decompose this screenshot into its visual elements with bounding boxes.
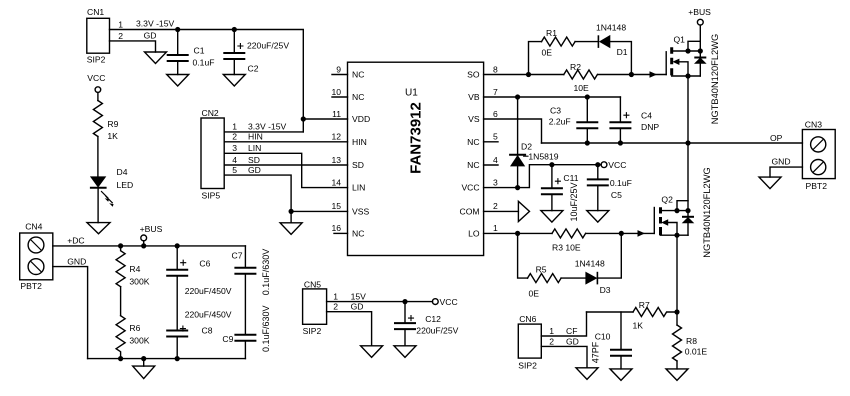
wire bottom rail xyxy=(88,358,246,360)
capacitor C10 47PF xyxy=(591,312,632,369)
svg-text:D1: D1 xyxy=(617,47,628,57)
capacitor C7 0.1uF/630V xyxy=(232,246,272,295)
transistor Q1 IGBT xyxy=(666,34,720,124)
diode Q2 freewheel xyxy=(682,211,695,236)
svg-text:NGTB40N120FL2WG: NGTB40N120FL2WG xyxy=(702,167,712,257)
ground (C5) xyxy=(587,211,609,223)
wire VSS pin15 xyxy=(291,210,347,212)
svg-text:220uF/450V: 220uF/450V xyxy=(185,286,232,296)
node junction +BUS stub xyxy=(141,243,146,248)
wire ground stub xyxy=(143,359,145,367)
node junction VS / Q1 emitter xyxy=(685,140,690,145)
power flag VCC (CN5) xyxy=(432,297,457,307)
node junction C2 top xyxy=(232,27,237,32)
power flag VCC (top-left) xyxy=(87,73,105,101)
capacitor C8 220uF/450V xyxy=(166,310,232,359)
svg-text:C5: C5 xyxy=(611,190,622,200)
node junction C8 bottom xyxy=(175,356,180,361)
diode D1 1N4148 xyxy=(596,23,628,58)
gate drive arrow (Q1) xyxy=(650,71,658,78)
U1 pin 4 NC stub xyxy=(484,164,498,166)
svg-text:1N5819: 1N5819 xyxy=(528,152,558,162)
svg-text:GD: GD xyxy=(144,30,157,40)
U1 left pin numbers xyxy=(331,64,341,233)
svg-text:C9: C9 xyxy=(222,334,233,344)
svg-text:11: 11 xyxy=(332,109,341,119)
node junction R4 top xyxy=(118,243,123,248)
svg-text:GD: GD xyxy=(351,302,364,312)
svg-text:R3 10E: R3 10E xyxy=(552,243,581,253)
node junction D2 top xyxy=(515,94,520,99)
node junction LO left xyxy=(515,231,520,236)
capacitor C3 2.2uF xyxy=(549,97,599,143)
svg-text:DNP: DNP xyxy=(641,122,659,132)
resistor R6 300K xyxy=(116,316,150,359)
U1 left pin names xyxy=(352,70,370,239)
svg-text:4: 4 xyxy=(493,155,498,165)
svg-text:LO: LO xyxy=(468,228,480,238)
svg-text:220uF/25V: 220uF/25V xyxy=(416,326,458,336)
svg-text:OP: OP xyxy=(770,133,783,143)
resistor R8 0.01E xyxy=(673,325,708,361)
U1 pin 9 NC stub xyxy=(332,74,348,76)
svg-text:PBT2: PBT2 xyxy=(20,281,42,291)
svg-text:NC: NC xyxy=(352,70,364,80)
svg-text:LIN: LIN xyxy=(352,183,365,193)
wire C6 to C8 xyxy=(176,276,178,331)
wire GD to VSS pin15 xyxy=(224,175,291,211)
svg-text:CN2: CN2 xyxy=(202,108,219,118)
svg-text:SD: SD xyxy=(248,155,260,165)
COM open triangle (pin2) xyxy=(484,201,530,221)
svg-text:C6: C6 xyxy=(199,259,210,269)
svg-text:VS: VS xyxy=(468,114,480,124)
U1 pin 5 NC stub xyxy=(484,141,498,143)
svg-text:10uF/25V: 10uF/25V xyxy=(569,182,579,221)
ground (C2) xyxy=(223,75,245,87)
svg-text:HIN: HIN xyxy=(352,137,367,147)
svg-text:8: 8 xyxy=(493,64,498,74)
ground (bottom rail) xyxy=(133,366,155,379)
wire CN5 pin2 to ground xyxy=(327,312,372,346)
diode D3 1N4148 xyxy=(575,259,611,296)
svg-text:16: 16 xyxy=(331,223,341,233)
svg-text:GD: GD xyxy=(248,165,261,175)
svg-text:5: 5 xyxy=(493,132,498,142)
svg-text:0.1uF: 0.1uF xyxy=(610,178,632,188)
wire VDD pin11 xyxy=(303,118,347,120)
svg-text:220uF/25V: 220uF/25V xyxy=(247,41,289,51)
diode Q1 freewheel xyxy=(694,51,707,76)
node junction VDD xyxy=(301,116,306,121)
capacitor C2 220uF/25V xyxy=(223,30,289,75)
svg-text:15: 15 xyxy=(331,201,341,211)
svg-text:C2: C2 xyxy=(248,64,259,74)
ground (C1) xyxy=(167,75,189,87)
capacitor C9 0.1uF/630V xyxy=(222,305,270,358)
svg-text:R1: R1 xyxy=(546,28,557,38)
svg-text:R2: R2 xyxy=(570,62,581,72)
svg-text:7: 7 xyxy=(493,87,498,97)
resistor R2 10E xyxy=(564,62,598,93)
svg-text:R7: R7 xyxy=(639,300,650,310)
wire Q1 emitter to VS node xyxy=(687,76,689,143)
svg-text:NC: NC xyxy=(467,160,479,170)
svg-text:CN1: CN1 xyxy=(87,7,104,17)
node junction SO left xyxy=(526,72,531,77)
svg-text:NGTB40N120FL2WG: NGTB40N120FL2WG xyxy=(710,34,720,124)
svg-text:1: 1 xyxy=(118,19,123,29)
svg-text:9: 9 xyxy=(336,64,341,74)
power flag +BUS (left) xyxy=(140,224,163,246)
svg-text:Q2: Q2 xyxy=(661,195,673,205)
wire CN2 pin1 to VDD vertical xyxy=(224,131,303,133)
svg-text:NC: NC xyxy=(352,228,364,238)
svg-text:1: 1 xyxy=(493,223,498,233)
svg-text:12: 12 xyxy=(331,132,341,142)
svg-text:VSS: VSS xyxy=(352,206,369,216)
svg-text:C4: C4 xyxy=(641,111,652,121)
wire R9 to D4 xyxy=(97,137,99,177)
wire D4 to ground xyxy=(97,188,99,223)
U1 pin 16 NC stub xyxy=(334,232,348,234)
svg-text:U1: U1 xyxy=(405,88,418,99)
capacitor C6 220uF/450V xyxy=(166,246,232,296)
op-amp U1 FAN73912 body xyxy=(348,62,484,255)
resistor R5 0E xyxy=(528,265,562,299)
wire CN3 pin2 to ground xyxy=(770,167,802,177)
ground (CN5 GD) xyxy=(361,346,383,358)
svg-text:C7: C7 xyxy=(232,251,243,261)
svg-text:0E: 0E xyxy=(529,289,540,299)
svg-text:VDD: VDD xyxy=(352,114,370,124)
capacitor C11 10uF/25V xyxy=(541,165,579,222)
ground (C12) xyxy=(394,346,416,358)
svg-text:LIN: LIN xyxy=(248,143,261,153)
svg-text:15V: 15V xyxy=(351,291,367,301)
resistor R4 300K xyxy=(116,246,150,287)
resistor R1 0E xyxy=(542,28,576,58)
svg-text:C1: C1 xyxy=(194,46,205,56)
svg-text:3: 3 xyxy=(493,177,498,187)
capacitor C4 DNP xyxy=(609,97,659,143)
svg-text:0E: 0E xyxy=(542,48,553,58)
ground (CN3) xyxy=(759,177,781,189)
connector CN4 PBT2 xyxy=(20,222,53,292)
connector CN6 SIP2 xyxy=(518,314,554,371)
svg-text:2: 2 xyxy=(549,337,554,347)
wire CN5 pin1 to VCC flag xyxy=(327,301,433,303)
svg-text:R8: R8 xyxy=(686,336,697,346)
svg-text:CN3: CN3 xyxy=(805,120,822,130)
svg-text:VCC: VCC xyxy=(461,183,479,193)
node junction C12 top xyxy=(402,299,407,304)
svg-text:5: 5 xyxy=(232,165,237,175)
wire CN6 pin1 CF xyxy=(541,312,586,336)
svg-text:C8: C8 xyxy=(202,326,213,336)
wire SO pin8 to Q1 gate xyxy=(484,74,667,76)
node junction LO right xyxy=(619,231,624,236)
svg-text:CN6: CN6 xyxy=(519,314,536,324)
wire CF line to R7 xyxy=(587,311,634,313)
wire R1 branch verticals xyxy=(529,42,632,75)
wire +DC rail xyxy=(53,245,246,247)
node junction C11 top xyxy=(549,162,554,167)
power flag +BUS (Q1) xyxy=(688,7,711,51)
ground (CN1 GD) xyxy=(145,52,167,64)
svg-text:Q1: Q1 xyxy=(674,35,686,45)
ground (CN6 GD) xyxy=(576,368,598,380)
wire LIN to pin14 xyxy=(224,153,347,187)
svg-text:NC: NC xyxy=(352,92,364,102)
power flag VCC (OVCC) xyxy=(601,160,626,170)
node junction R7/R8 xyxy=(674,309,679,314)
svg-text:1: 1 xyxy=(549,326,554,336)
resistor R3 10E xyxy=(552,229,586,253)
wire CN6 pin2 to ground xyxy=(541,346,587,367)
svg-text:14: 14 xyxy=(331,177,341,187)
svg-text:3: 3 xyxy=(232,143,237,153)
U1 pin 10 NC stub xyxy=(332,96,348,98)
wire LO pin1 to Q2 gate xyxy=(484,232,655,234)
svg-text:COM: COM xyxy=(460,206,480,216)
svg-text:GND: GND xyxy=(772,157,791,167)
svg-text:2: 2 xyxy=(493,201,498,211)
node junction C4 bottom xyxy=(618,140,623,145)
node junction D2 bottom xyxy=(515,185,520,190)
node junction VSS xyxy=(289,209,294,214)
wire VS pin6 jog xyxy=(484,119,542,143)
svg-text:SIP2: SIP2 xyxy=(518,361,537,371)
resistor R9 1K xyxy=(93,101,118,142)
node junction C3 top xyxy=(585,94,590,99)
connector CN1 SIP2 xyxy=(87,7,123,65)
U1 right pin names xyxy=(460,70,480,239)
svg-text:1: 1 xyxy=(333,291,338,301)
wire VS node to CN3 OP xyxy=(542,142,803,144)
wire CN1 pin1 rail to corner xyxy=(110,30,304,132)
svg-text:FAN73912: FAN73912 xyxy=(408,102,425,174)
svg-text:2.2uF: 2.2uF xyxy=(549,117,571,127)
svg-text:SIP5: SIP5 xyxy=(202,191,221,201)
wire C7 to C9 xyxy=(244,274,246,335)
svg-text:1N4148: 1N4148 xyxy=(575,259,605,269)
svg-text:D2: D2 xyxy=(521,142,532,152)
node junction SO right xyxy=(629,72,634,77)
wire VCC pin3 xyxy=(484,165,602,188)
svg-text:4: 4 xyxy=(232,155,237,165)
svg-text:1N4148: 1N4148 xyxy=(596,23,626,33)
gate drive arrow (Q2) xyxy=(638,230,646,237)
svg-text:CN5: CN5 xyxy=(304,280,321,290)
svg-text:GND: GND xyxy=(67,257,86,267)
svg-text:R6: R6 xyxy=(129,323,140,333)
node junction C6 top xyxy=(175,243,180,248)
capacitor C12 220uF/25V xyxy=(394,302,459,346)
wire R5 branch xyxy=(518,233,622,278)
svg-text:C10: C10 xyxy=(595,332,611,342)
svg-text:C11: C11 xyxy=(563,173,578,183)
svg-text:C3: C3 xyxy=(550,106,561,116)
svg-text:220uF/450V: 220uF/450V xyxy=(185,310,232,320)
svg-text:LED: LED xyxy=(117,180,134,190)
svg-text:R5: R5 xyxy=(536,265,547,275)
svg-text:2: 2 xyxy=(118,31,123,41)
U1 right pin numbers xyxy=(493,64,498,233)
svg-text:1: 1 xyxy=(232,122,237,132)
svg-text:300K: 300K xyxy=(129,277,149,287)
svg-text:R9: R9 xyxy=(107,119,118,129)
svg-text:+BUS: +BUS xyxy=(140,224,163,234)
diode D2 1N5819 xyxy=(509,97,559,188)
svg-text:SO: SO xyxy=(467,70,480,80)
connector CN3 PBT2 xyxy=(802,120,835,192)
node junction C5 top xyxy=(595,162,600,167)
wire VSS ground stub xyxy=(290,211,292,222)
capacitor C5 0.1uF xyxy=(587,165,632,211)
svg-text:D3: D3 xyxy=(600,285,611,295)
svg-text:+BUS: +BUS xyxy=(688,7,711,17)
svg-text:C12: C12 xyxy=(425,314,441,324)
wire CN4 GND down to bottom rail xyxy=(53,267,88,359)
svg-text:300K: 300K xyxy=(129,336,149,346)
svg-text:13: 13 xyxy=(331,155,341,165)
svg-text:SIP2: SIP2 xyxy=(303,326,322,336)
svg-text:0.1uF/630V: 0.1uF/630V xyxy=(261,305,271,352)
svg-text:CN4: CN4 xyxy=(25,222,42,232)
svg-text:3.3V -15V: 3.3V -15V xyxy=(136,19,174,29)
wire SD to pin13 xyxy=(224,164,347,166)
wire VS node to Q2 collector xyxy=(687,143,689,211)
svg-text:+DC: +DC xyxy=(67,236,84,246)
ground (C11) xyxy=(541,211,563,223)
svg-text:2: 2 xyxy=(232,132,237,142)
wire Q2 emitter down xyxy=(676,235,678,325)
resistor R7 1K xyxy=(633,300,678,331)
svg-text:CF: CF xyxy=(566,326,577,336)
transistor Q2 IGBT xyxy=(654,167,712,257)
svg-text:HIN: HIN xyxy=(248,132,263,142)
connector CN5 SIP2 xyxy=(303,280,339,337)
svg-text:0.1uF/630V: 0.1uF/630V xyxy=(261,249,271,296)
svg-text:VCC: VCC xyxy=(608,160,626,170)
wire VB pin7 xyxy=(484,96,621,98)
svg-text:NC: NC xyxy=(467,137,479,147)
svg-text:VCC: VCC xyxy=(440,297,458,307)
LED D4 xyxy=(90,167,133,207)
svg-text:47PF: 47PF xyxy=(591,341,601,363)
node junction C3 bottom xyxy=(585,140,590,145)
svg-text:SD: SD xyxy=(352,160,364,170)
node junction C1 top xyxy=(175,27,180,32)
svg-text:1K: 1K xyxy=(633,321,644,331)
ground (R8) xyxy=(666,369,688,381)
svg-text:SIP2: SIP2 xyxy=(87,55,106,65)
wire R4 to R6 xyxy=(120,287,122,316)
wire HIN to pin12 xyxy=(224,141,347,143)
ground (VSS) xyxy=(280,223,302,235)
svg-text:1K: 1K xyxy=(107,131,118,141)
svg-text:3.3V -15V: 3.3V -15V xyxy=(248,122,286,132)
ground (D4) xyxy=(87,223,110,234)
svg-text:R4: R4 xyxy=(129,264,140,274)
svg-text:GD: GD xyxy=(566,337,579,347)
capacitor C1 xyxy=(167,30,215,75)
svg-text:PBT2: PBT2 xyxy=(806,181,828,191)
svg-text:10E: 10E xyxy=(574,83,590,93)
svg-text:6: 6 xyxy=(493,109,498,119)
svg-text:VCC: VCC xyxy=(87,73,105,83)
svg-text:0.1uF: 0.1uF xyxy=(193,58,215,68)
ground (C10) xyxy=(610,369,632,381)
svg-text:10: 10 xyxy=(331,87,341,97)
connector CN2 SIP5 xyxy=(201,108,237,201)
wire R8 to ground xyxy=(676,361,678,369)
wire CN1 pin2 to ground xyxy=(110,41,156,52)
svg-text:2: 2 xyxy=(333,302,338,312)
node junction ground stub xyxy=(141,356,146,361)
node junction R6 bottom xyxy=(118,356,123,361)
svg-text:0.01E: 0.01E xyxy=(685,347,708,357)
svg-text:VB: VB xyxy=(468,92,480,102)
svg-text:D4: D4 xyxy=(117,167,128,177)
